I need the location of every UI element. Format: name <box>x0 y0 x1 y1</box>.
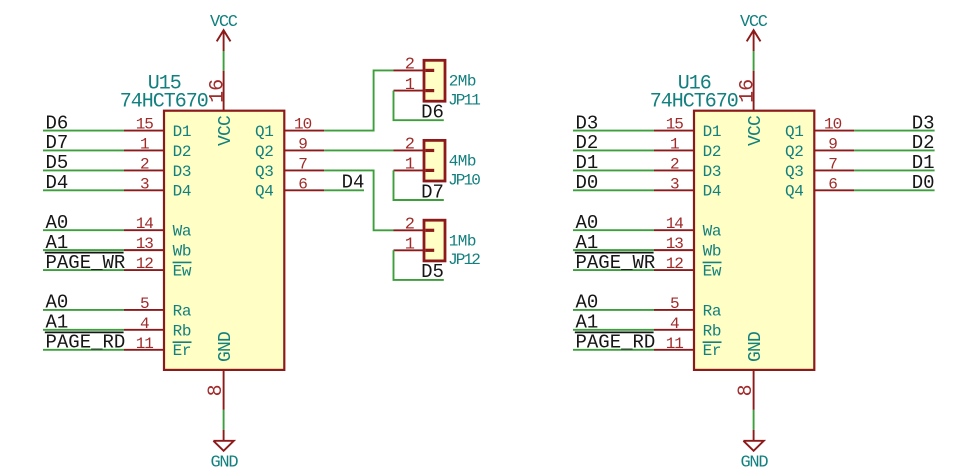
svg-text:D5: D5 <box>46 152 69 174</box>
svg-text:11: 11 <box>666 335 684 353</box>
U15 pin 14 (Wa) <box>124 215 192 240</box>
wire JP12 pin 1 to net D5 <box>394 250 444 280</box>
svg-text:D0: D0 <box>576 172 599 194</box>
svg-text:13: 13 <box>136 235 154 253</box>
svg-text:2Mb: 2Mb <box>449 73 476 91</box>
U15 pin 8 (GND bottom) <box>205 332 236 410</box>
U15 pin 7 (Q3) <box>255 155 324 180</box>
svg-text:15: 15 <box>136 116 154 134</box>
svg-text:D7: D7 <box>46 132 69 154</box>
wire U15 pin 6 (Q4) to net D4 <box>324 189 364 191</box>
svg-text:2: 2 <box>670 155 679 173</box>
svg-text:D3: D3 <box>703 163 722 181</box>
svg-text:5: 5 <box>140 295 149 313</box>
wire net A1 to U15 pin 4 <box>43 329 124 331</box>
wire net D1 to U16 pin 2 <box>573 169 654 171</box>
U16 pin 9 (Q2) <box>785 135 854 160</box>
svg-text:6: 6 <box>298 175 307 193</box>
svg-text:1: 1 <box>140 135 149 153</box>
JP10 pin 1 <box>394 156 435 175</box>
svg-text:Q4: Q4 <box>785 183 804 201</box>
svg-text:Er: Er <box>173 342 192 360</box>
svg-text:16: 16 <box>737 79 760 103</box>
wire U15 pin 8 to GND <box>223 410 225 430</box>
U15 pin 16 (VCC top) <box>207 71 236 146</box>
U16 pin 10 (Q1) <box>785 116 854 141</box>
U16 pin 13 (Wb) <box>654 235 721 260</box>
svg-text:VCC: VCC <box>210 13 238 32</box>
svg-text:D3: D3 <box>912 112 935 134</box>
U15 pin 10 (Q1) <box>255 116 324 141</box>
wire net PAGE_WR to U16 pin 12 <box>573 269 654 271</box>
svg-text:Wb: Wb <box>173 243 192 261</box>
svg-text:GND: GND <box>216 332 236 362</box>
svg-text:11: 11 <box>136 335 154 353</box>
svg-text:JP10: JP10 <box>448 171 480 189</box>
wire U15 pin 10 (Q1) to JP11 pin 2 <box>324 70 393 130</box>
svg-text:VCC: VCC <box>216 115 236 146</box>
svg-text:8: 8 <box>205 384 228 396</box>
wire net A0 to U15 pin 14 <box>43 229 124 231</box>
svg-text:JP11: JP11 <box>448 92 480 110</box>
overbar of net label PAGE_WR <box>45 252 124 254</box>
svg-text:Ew: Ew <box>173 262 192 280</box>
svg-text:GND: GND <box>746 332 766 362</box>
svg-text:PAGE_WR: PAGE_WR <box>46 252 126 274</box>
wire net A1 to U16 pin 13 <box>573 249 654 251</box>
wire net D3 to U16 pin 15 <box>573 130 654 132</box>
svg-text:A0: A0 <box>576 212 599 234</box>
wire U15 pin 9 (Q2) to JP10 pin 2 <box>324 149 393 151</box>
svg-text:10: 10 <box>294 116 312 134</box>
svg-text:1: 1 <box>670 135 679 153</box>
svg-text:D7: D7 <box>421 181 444 203</box>
svg-text:14: 14 <box>666 215 684 233</box>
overbar of net label PAGE_WR <box>575 252 654 254</box>
svg-text:A1: A1 <box>576 312 599 334</box>
U15 pin 1 (D2) <box>124 135 191 160</box>
svg-text:D4: D4 <box>173 183 192 201</box>
wire net D2 to U16 pin 1 <box>573 149 654 151</box>
svg-text:2: 2 <box>405 56 414 75</box>
U16 pin 3 (D4) <box>654 175 721 200</box>
wire U16 pin 9 to net D2 <box>854 149 934 151</box>
svg-text:A1: A1 <box>46 232 69 254</box>
svg-text:D2: D2 <box>703 143 722 161</box>
svg-text:PAGE_RD: PAGE_RD <box>46 331 126 353</box>
svg-text:Q2: Q2 <box>255 143 274 161</box>
svg-text:Ra: Ra <box>703 302 722 320</box>
svg-text:6: 6 <box>828 175 837 193</box>
U16 pin 16 (VCC top) <box>737 71 766 146</box>
wire net D5 to U15 pin 2 <box>43 169 124 171</box>
wire net PAGE_WR to U15 pin 12 <box>43 269 124 271</box>
svg-text:D3: D3 <box>173 163 192 181</box>
svg-text:Q2: Q2 <box>785 143 804 161</box>
U16 pin 8 (GND bottom) <box>735 332 766 410</box>
wire VCC to U15 pin 16 <box>223 51 225 71</box>
svg-text:Q4: Q4 <box>255 183 274 201</box>
svg-text:GND: GND <box>211 453 239 471</box>
svg-text:16: 16 <box>207 79 230 103</box>
svg-text:Q1: Q1 <box>785 123 804 141</box>
wire JP10 pin 1 to net D7 <box>394 170 444 200</box>
svg-text:4: 4 <box>670 315 679 333</box>
wire U16 pin 6 to net D0 <box>854 189 934 191</box>
svg-text:9: 9 <box>828 135 837 153</box>
svg-text:JP12: JP12 <box>448 251 480 269</box>
wire net A1 to U16 pin 4 <box>573 329 654 331</box>
U15 pin 4 (Rb) <box>124 315 191 340</box>
svg-text:7: 7 <box>298 155 307 173</box>
svg-text:Wb: Wb <box>703 243 722 261</box>
svg-text:1: 1 <box>405 76 415 95</box>
svg-text:A0: A0 <box>576 292 599 314</box>
svg-text:D6: D6 <box>421 102 444 124</box>
svg-text:74HCT670: 74HCT670 <box>650 91 738 114</box>
wire net D0 to U16 pin 3 <box>573 189 654 191</box>
svg-text:Rb: Rb <box>173 322 192 340</box>
svg-text:D5: D5 <box>421 261 444 283</box>
svg-text:12: 12 <box>136 255 154 273</box>
ground symbol GND (U15) <box>211 430 239 471</box>
svg-text:D4: D4 <box>342 171 365 193</box>
svg-text:14: 14 <box>136 215 154 233</box>
svg-text:3: 3 <box>140 175 149 193</box>
U16 pin 15 (D1) <box>654 116 721 141</box>
IC U15 body <box>164 111 284 370</box>
svg-text:5: 5 <box>670 295 679 313</box>
wire net A0 to U15 pin 5 <box>43 309 124 311</box>
svg-text:12: 12 <box>666 255 684 273</box>
JP11 pin 2 <box>394 56 435 75</box>
svg-text:Wa: Wa <box>703 223 722 241</box>
U15 pin 2 (D3) <box>124 155 191 180</box>
U16 pin 2 (D3) <box>654 155 721 180</box>
wire net A0 to U16 pin 5 <box>573 309 654 311</box>
U15 pin 9 (Q2) <box>255 135 324 160</box>
svg-text:Ew: Ew <box>703 262 722 280</box>
svg-text:VCC: VCC <box>740 13 768 32</box>
U16 pin 14 (Wa) <box>654 215 722 240</box>
U15 pin 15 (D1) <box>124 116 191 141</box>
jumper JP11 body <box>424 60 445 101</box>
svg-text:PAGE_RD: PAGE_RD <box>576 331 656 353</box>
U15 pin 5 (Ra) <box>124 295 192 320</box>
svg-text:8: 8 <box>735 384 758 396</box>
ground symbol GND (U16) <box>741 430 769 471</box>
svg-text:2: 2 <box>140 155 149 173</box>
svg-text:D1: D1 <box>173 123 192 141</box>
svg-text:4Mb: 4Mb <box>449 153 476 171</box>
svg-text:9: 9 <box>298 135 307 153</box>
jumper JP12 body <box>424 220 445 261</box>
svg-text:Q3: Q3 <box>785 163 804 181</box>
svg-text:Wa: Wa <box>173 223 192 241</box>
wire JP11 pin 1 to net D6 <box>394 91 444 121</box>
U16 pin 11 (Er) <box>654 335 722 360</box>
U15 pin 11 (Er) <box>124 335 192 360</box>
wire net A0 to U16 pin 14 <box>573 229 654 231</box>
svg-text:2: 2 <box>405 216 414 235</box>
svg-text:1: 1 <box>405 156 415 175</box>
svg-text:4: 4 <box>140 315 149 333</box>
svg-text:Er: Er <box>703 342 722 360</box>
wire net PAGE_RD to U16 pin 11 <box>573 349 654 351</box>
svg-text:3: 3 <box>670 175 679 193</box>
svg-text:1Mb: 1Mb <box>449 233 476 251</box>
wire net D7 to U15 pin 1 <box>43 149 124 151</box>
svg-text:A0: A0 <box>46 292 69 314</box>
svg-text:D1: D1 <box>912 152 935 174</box>
svg-text:VCC: VCC <box>746 115 766 146</box>
svg-text:1: 1 <box>405 236 415 255</box>
U15 pin 6 (Q4) <box>255 175 324 200</box>
svg-text:D1: D1 <box>703 123 722 141</box>
JP12 pin 1 <box>394 236 435 255</box>
wire net D6 to U15 pin 15 <box>43 130 124 132</box>
wire U16 pin 8 to GND <box>753 410 755 430</box>
wire net D4 to U15 pin 3 <box>43 189 124 191</box>
svg-text:D2: D2 <box>173 143 192 161</box>
wire VCC to U16 pin 16 <box>753 51 755 71</box>
wire U16 pin 7 to net D1 <box>854 169 934 171</box>
U15 pin 12 (Ew) <box>124 255 192 280</box>
power symbol VCC (U16) <box>740 13 768 51</box>
svg-text:Ra: Ra <box>173 302 192 320</box>
svg-text:A1: A1 <box>46 312 69 334</box>
svg-text:13: 13 <box>666 235 684 253</box>
svg-text:7: 7 <box>828 155 837 173</box>
svg-text:Q3: Q3 <box>255 163 274 181</box>
svg-text:Rb: Rb <box>703 322 722 340</box>
svg-text:D2: D2 <box>576 132 599 154</box>
U16 pin 7 (Q3) <box>785 155 854 180</box>
U16 pin 4 (Rb) <box>654 315 721 340</box>
svg-text:D1: D1 <box>576 152 599 174</box>
svg-text:D4: D4 <box>703 183 722 201</box>
JP12 pin 2 <box>394 216 435 235</box>
U16 pin 5 (Ra) <box>654 295 722 320</box>
svg-text:A1: A1 <box>576 232 599 254</box>
svg-text:10: 10 <box>824 116 842 134</box>
IC U16 body <box>694 111 814 370</box>
U16 pin 1 (D2) <box>654 135 721 160</box>
jumper JP10 body <box>424 140 445 181</box>
svg-text:A0: A0 <box>46 212 69 234</box>
U16 pin 6 (Q4) <box>785 175 854 200</box>
svg-text:Q1: Q1 <box>255 123 274 141</box>
svg-text:D6: D6 <box>46 112 69 134</box>
U15 pin 3 (D4) <box>124 175 191 200</box>
svg-text:GND: GND <box>741 453 769 471</box>
overbar of net label PAGE_RD <box>575 331 654 333</box>
JP11 pin 1 <box>394 76 435 95</box>
svg-text:D3: D3 <box>576 112 599 134</box>
wire net PAGE_RD to U15 pin 11 <box>43 349 124 351</box>
svg-text:2: 2 <box>405 136 414 155</box>
JP10 pin 2 <box>394 136 435 155</box>
svg-text:D0: D0 <box>912 172 935 194</box>
svg-text:D4: D4 <box>46 172 69 194</box>
U15 pin 13 (Wb) <box>124 235 191 260</box>
power symbol VCC (U15) <box>210 13 238 51</box>
svg-text:D2: D2 <box>912 132 935 154</box>
svg-text:PAGE_WR: PAGE_WR <box>576 252 656 274</box>
wire U15 pin 7 (Q3) to JP12 pin 2 <box>324 170 393 230</box>
svg-text:15: 15 <box>666 116 684 134</box>
U16 pin 12 (Ew) <box>654 255 722 280</box>
wire net A1 to U15 pin 13 <box>43 249 124 251</box>
wire U16 pin 10 to net D3 <box>854 130 934 132</box>
svg-text:74HCT670: 74HCT670 <box>120 91 208 114</box>
overbar of net label PAGE_RD <box>45 331 124 333</box>
